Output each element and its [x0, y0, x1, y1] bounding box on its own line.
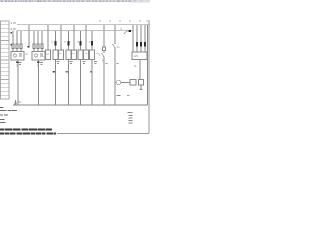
- svg-text:PE: PE: [18, 100, 22, 104]
- svg-text:12V: 12V: [134, 54, 139, 58]
- svg-text:4L: 4L: [134, 64, 137, 68]
- svg-text:F: F: [78, 40, 80, 44]
- svg-text:41: 41: [25, 52, 28, 56]
- svg-text:F: F: [65, 40, 67, 44]
- svg-text:2 W: 2 W: [11, 27, 17, 31]
- svg-text:F: F: [52, 40, 54, 44]
- svg-text:S: S: [99, 53, 101, 57]
- svg-text:1 W: 1 W: [11, 21, 17, 25]
- svg-text:S1: S1: [117, 45, 121, 49]
- svg-text:Q: Q: [120, 27, 122, 31]
- svg-text:42: 42: [46, 52, 49, 56]
- svg-text:F: F: [89, 40, 91, 44]
